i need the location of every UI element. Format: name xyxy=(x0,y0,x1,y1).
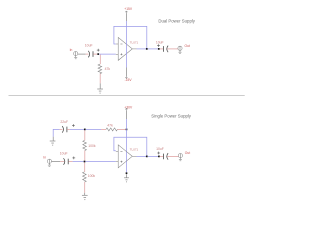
label U1 TL071 xyxy=(130,41,139,45)
lead C2 left xyxy=(160,48,163,50)
ground below U2 xyxy=(124,178,129,182)
op-amp U1 TL071 xyxy=(116,37,137,60)
divider line between circuits xyxy=(9,94,245,96)
lead C3 right xyxy=(67,128,70,130)
output jack J2 (Out) xyxy=(178,46,182,53)
svg-text:47k: 47k xyxy=(107,124,113,128)
lead R3 bottom xyxy=(84,151,86,161)
wire N4 to U2 V+ and through to V- ground xyxy=(126,129,128,172)
wire N1 to op-amp + input xyxy=(99,53,116,55)
label C4 value 10uF xyxy=(60,152,68,156)
capacitor C4 10uF xyxy=(64,158,69,165)
label R2 value 47k xyxy=(107,124,113,128)
capacitor C5 10uF xyxy=(163,153,168,160)
node C5 + terminal xyxy=(158,156,160,158)
wire N6 to C5 xyxy=(148,155,159,157)
resistor R2 47k xyxy=(106,128,117,131)
capacitor C1 10uF xyxy=(88,51,93,58)
wire U1 output xyxy=(137,48,147,50)
lead R2 left xyxy=(101,128,106,130)
node N1 junction xyxy=(97,53,99,55)
label +30V xyxy=(124,105,133,109)
lead C3 left xyxy=(60,128,63,130)
power flag +15V xyxy=(125,11,127,13)
svg-text:10uF: 10uF xyxy=(60,152,68,156)
label C3 value 22uF xyxy=(60,120,68,124)
label C5 value 10uF xyxy=(156,147,164,151)
lead R2 right xyxy=(117,128,125,130)
svg-text:Out: Out xyxy=(185,44,190,48)
ground stub U2 xyxy=(126,174,128,177)
ground stub R4 xyxy=(84,193,86,195)
wire N5 to U2 + input xyxy=(86,161,116,163)
wire feedback loop U2 xyxy=(114,137,147,156)
lead R1 bottom xyxy=(99,74,101,84)
svg-text:TL071: TL071 xyxy=(130,41,139,45)
svg-text:-15V: -15V xyxy=(125,78,133,82)
ground stub R1 xyxy=(99,83,101,88)
node N6 junction at U2 output xyxy=(146,156,148,158)
polarity + of C3 xyxy=(72,124,75,127)
polarity + of C2 xyxy=(157,44,160,47)
resistor R4 100k xyxy=(83,172,87,182)
svg-text:10uF: 10uF xyxy=(156,41,164,45)
svg-text:100k: 100k xyxy=(88,174,96,178)
resistor R1 47k xyxy=(98,64,102,74)
lead C2 right xyxy=(167,48,178,50)
node N3 junction xyxy=(84,129,86,131)
wire +15V to U1 V+ pin and through to V- xyxy=(126,21,128,68)
lead C4 left xyxy=(60,161,64,163)
wire J3 to C4 xyxy=(52,161,61,163)
wire N3 to R2 xyxy=(86,128,101,130)
svg-text:Single Power Supply: Single Power Supply xyxy=(151,113,192,118)
label In xyxy=(70,48,73,52)
wire U2 output xyxy=(137,155,147,157)
resistor R3 100k xyxy=(83,140,87,150)
lead +15V xyxy=(126,13,128,21)
polarity + of C5 xyxy=(157,152,160,155)
ground stub C3 xyxy=(52,137,54,141)
wire ground to C3 xyxy=(53,129,59,136)
lead +30V xyxy=(126,111,128,119)
label R1 value 47k xyxy=(105,67,111,71)
svg-text:In: In xyxy=(70,48,73,52)
lead R3 top xyxy=(84,130,86,140)
wire J1 to C1 xyxy=(78,53,86,55)
label R3 value 100k xyxy=(88,144,96,148)
label +15V xyxy=(124,7,133,11)
svg-text:Dual Power Supply: Dual Power Supply xyxy=(158,18,195,23)
svg-text:Out: Out xyxy=(185,151,190,155)
capacitor C2 10uF xyxy=(163,46,168,53)
op-amp U2 TL071 xyxy=(116,145,137,168)
power flag -15V xyxy=(125,76,127,78)
wire C3 to node N3 xyxy=(70,128,84,130)
capacitor C3 22uF xyxy=(62,126,67,133)
polarity + of C1 xyxy=(97,49,100,52)
lead C4 right xyxy=(69,161,73,163)
wire N2 to C2 xyxy=(148,48,159,50)
wire +30V to N4 xyxy=(126,119,128,129)
title Single Power Supply xyxy=(151,113,192,118)
lead R4 bottom xyxy=(84,182,86,193)
node C2 + terminal xyxy=(158,48,160,50)
svg-text:10uF: 10uF xyxy=(156,147,164,151)
label R4 value 100k xyxy=(88,174,96,178)
wire C4 to node N5 xyxy=(73,161,84,163)
lead R1 top xyxy=(99,55,101,65)
lead C1 right xyxy=(93,53,97,55)
output jack J4 (Out) xyxy=(178,154,182,161)
title Dual Power Supply xyxy=(158,18,195,23)
svg-text:TL071: TL071 xyxy=(130,148,139,152)
lead -15V xyxy=(126,68,128,77)
label U2 TL071 xyxy=(130,148,139,152)
ground below R1 xyxy=(97,89,103,93)
lead C1 left xyxy=(86,53,89,55)
svg-text:10uF: 10uF xyxy=(85,44,93,48)
label In (bottom) xyxy=(43,155,46,159)
node N2 junction at U1 output xyxy=(146,48,148,50)
svg-text:+15V: +15V xyxy=(124,7,133,11)
power flag +30V xyxy=(125,108,127,110)
lead R4 top xyxy=(84,163,86,172)
svg-text:100k: 100k xyxy=(88,144,96,148)
wire feedback loop U1 xyxy=(114,26,147,49)
svg-text:In: In xyxy=(43,155,46,159)
input jack J3 (In) xyxy=(47,159,51,166)
lead C5 left xyxy=(160,155,163,157)
svg-text:47k: 47k xyxy=(105,67,111,71)
input jack J1 (In) xyxy=(74,52,78,59)
label C1 value 10uF xyxy=(85,44,93,48)
svg-text:22uF: 22uF xyxy=(60,120,68,124)
node N4 junction xyxy=(126,129,128,131)
label Out (bottom) xyxy=(185,151,190,155)
polarity + of C4 xyxy=(72,157,75,160)
node junction at U2 V- ground xyxy=(126,172,128,174)
label Out xyxy=(185,44,190,48)
node N5 junction xyxy=(84,161,86,163)
ground below R4 xyxy=(82,195,88,199)
label -15V xyxy=(125,78,133,82)
lead C5 right xyxy=(167,155,178,157)
label C2 value 10uF xyxy=(156,41,164,45)
ground below C3 xyxy=(50,141,56,145)
